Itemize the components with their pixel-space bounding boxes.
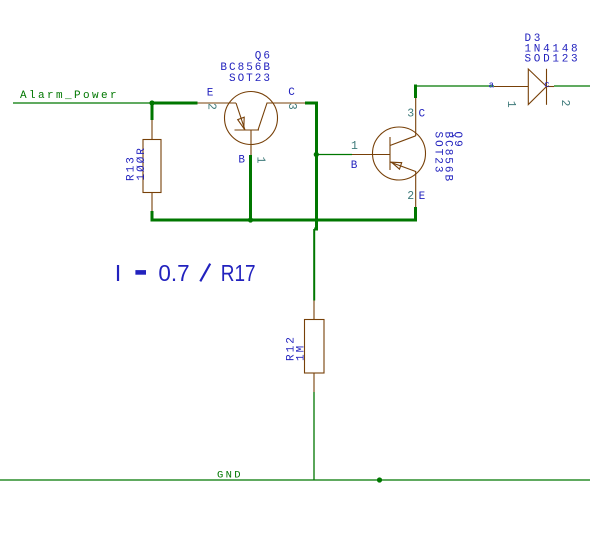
wire: [305, 103, 317, 229]
wire: [151, 102, 198, 105]
pin 1 (a) of D3: [489, 81, 517, 108]
svg-text:BC856B: BC856B: [220, 62, 272, 74]
wire: [151, 219, 417, 222]
svg-text:R17: R17: [221, 260, 256, 286]
junction: [149, 100, 154, 105]
wire: [316, 154, 352, 156]
svg-text:1: 1: [351, 140, 358, 153]
pin 1 (B) of Q9: [351, 140, 358, 172]
transistor Q6: [198, 92, 306, 156]
pin 1 (B) of Q6: [238, 155, 266, 167]
pin 3 (C) of Q9: [407, 108, 425, 121]
svg-text:a: a: [489, 81, 495, 91]
svg-text:Q9BC856BSOT23: Q9BC856BSOT23: [432, 132, 463, 184]
svg-text:2: 2: [558, 100, 571, 107]
wire GND rail: [0, 479, 590, 481]
junction: [377, 477, 382, 482]
wire: [414, 85, 494, 87]
wire: [313, 229, 315, 301]
svg-text:E: E: [207, 87, 214, 99]
svg-text:Alarm_Power: Alarm_Power: [20, 90, 119, 102]
wire: [13, 102, 152, 104]
svg-text:I: I: [115, 260, 122, 286]
svg-text:GND: GND: [217, 470, 243, 482]
pin 2 (E) of Q6: [205, 87, 218, 110]
svg-text:3: 3: [407, 108, 414, 121]
svg-text:1M: 1M: [296, 344, 308, 361]
svg-text:2: 2: [407, 190, 414, 203]
svg-text:B: B: [351, 160, 358, 172]
wire: [554, 85, 590, 87]
annotation I = 0.7 / R17: [115, 260, 256, 286]
svg-text:C: C: [419, 109, 426, 121]
resistor R12: [305, 301, 325, 393]
svg-text:B: B: [238, 155, 245, 167]
svg-text:1: 1: [253, 157, 266, 164]
wire: [249, 155, 252, 220]
pin 2 (E) of Q9: [407, 190, 425, 203]
svg-text:2: 2: [205, 103, 218, 110]
wire: [313, 392, 315, 480]
svg-text:1ØØR: 1ØØR: [136, 146, 148, 180]
svg-text:c: c: [544, 80, 549, 90]
svg-text:C: C: [288, 87, 295, 99]
diode D3: [494, 69, 554, 105]
wire: [414, 207, 417, 222]
svg-text:SOD123: SOD123: [525, 54, 581, 66]
svg-text:E: E: [419, 191, 426, 203]
pin 3 (C) of Q6: [285, 87, 298, 110]
transistor Q9: [352, 98, 426, 207]
svg-text:Q6: Q6: [255, 51, 272, 63]
junction: [248, 217, 253, 222]
wire: [151, 211, 154, 222]
svg-text:0.7: 0.7: [158, 260, 189, 286]
svg-text:SOT23: SOT23: [229, 73, 272, 85]
pin 2 (c) of D3: [544, 80, 571, 106]
wire: [414, 85, 417, 99]
svg-text:1: 1: [504, 101, 517, 108]
resistor R13: [143, 120, 161, 211]
wire: [151, 102, 154, 121]
svg-text:3: 3: [285, 103, 298, 110]
junction: [314, 152, 319, 157]
